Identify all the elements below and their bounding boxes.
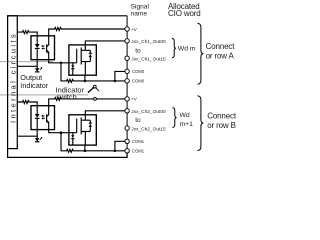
svg-text:COM0: COM0 — [132, 78, 145, 83]
svg-text:to: to — [135, 117, 141, 124]
svg-text:Jxx_Ch2_Out15: Jxx_Ch2_Out15 — [131, 126, 166, 132]
svg-text:+V: +V — [131, 27, 138, 33]
svg-text:Internal circuits: Internal circuits — [8, 32, 17, 123]
svg-text:CIO word: CIO word — [168, 9, 201, 18]
svg-text:COM1: COM1 — [132, 148, 145, 153]
svg-text:to: to — [135, 47, 141, 54]
svg-text:m+1: m+1 — [180, 121, 194, 128]
svg-text:switch: switch — [56, 92, 77, 101]
svg-text:COM0: COM0 — [132, 69, 145, 74]
svg-text:COM1: COM1 — [132, 139, 145, 144]
svg-text:Connect: Connect — [206, 42, 236, 51]
svg-text:Jxx_Ch2_Out00: Jxx_Ch2_Out00 — [131, 109, 166, 115]
svg-text:Jxx_Ch1_Out00: Jxx_Ch1_Out00 — [131, 39, 166, 45]
svg-text:or row B: or row B — [207, 121, 236, 130]
svg-text:Connect: Connect — [207, 112, 237, 121]
svg-text:name: name — [131, 11, 148, 18]
svg-text:Signal: Signal — [131, 4, 150, 11]
svg-text:Indicator: Indicator — [20, 81, 49, 90]
svg-text:Wd m: Wd m — [178, 45, 196, 52]
svg-text:Wd: Wd — [180, 112, 190, 119]
svg-text:+V: +V — [131, 97, 138, 103]
svg-text:Jxx_Ch1_Out15: Jxx_Ch1_Out15 — [131, 56, 166, 62]
svg-text:or row A: or row A — [206, 51, 235, 60]
